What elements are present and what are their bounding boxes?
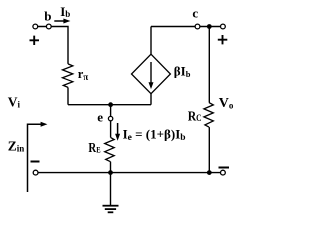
- terminal circle left input top: [33, 24, 38, 29]
- svg-text:rπ: rπ: [78, 67, 89, 82]
- wire: top rail to diamond top: [150, 27, 152, 55]
- svg-text:e: e: [97, 109, 103, 124]
- wire: top-left from terminal b to corner: [35, 27, 68, 64]
- resistor R_C zigzag: [204, 103, 213, 128]
- resistor R_E zigzag: [105, 137, 115, 161]
- wire: middle rail: [68, 104, 151, 106]
- wire: diamond bottom to middle rail: [150, 94, 152, 105]
- plus sign right: [218, 35, 228, 44]
- wire: R_E bottom to ground: [110, 162, 112, 205]
- wire: R_C bottom to bottom rail: [208, 127, 210, 173]
- wire: node e to R_E: [110, 121, 112, 138]
- svg-text:Vi: Vi: [8, 94, 21, 109]
- svg-text:Vo: Vo: [219, 96, 234, 111]
- terminal circle bottom-left: [33, 170, 38, 175]
- svg-text:Ib: Ib: [60, 4, 70, 19]
- terminal circle c: [195, 24, 200, 29]
- minus sign left: [31, 161, 40, 163]
- wire: top-right rail: [151, 26, 223, 28]
- ground symbol: [103, 205, 119, 207]
- current arrow I_b: [54, 20, 65, 22]
- svg-text:c: c: [192, 6, 198, 21]
- wire: bottom rail: [36, 172, 223, 174]
- dependent current source diamond: [132, 54, 171, 93]
- node junction dot at e branch: [108, 102, 113, 107]
- arrow inside diamond (beta Ib direction): [150, 62, 152, 84]
- terminal circle bottom-right output: [221, 170, 226, 175]
- svg-text:βIb: βIb: [174, 64, 191, 79]
- svg-text:Zin: Zin: [8, 138, 25, 153]
- current arrow I_e: [117, 123, 119, 135]
- svg-text:Ie = (1+β)Ib: Ie = (1+β)Ib: [123, 126, 186, 143]
- junction dot bottom rail right: [207, 170, 212, 175]
- junction dot top-right: [207, 24, 212, 29]
- junction dot bottom rail left: [108, 170, 113, 175]
- wire: junction to node e: [110, 105, 112, 117]
- impedance arrow Z_in: [28, 124, 42, 192]
- plus sign left: [30, 36, 40, 45]
- node e terminal circle: [108, 116, 112, 120]
- resistor r_pi zigzag: [63, 64, 73, 88]
- svg-text:RC: RC: [188, 109, 202, 124]
- terminal circle top-right output: [221, 24, 226, 29]
- svg-text:b: b: [44, 8, 51, 23]
- terminal circle b: [46, 24, 51, 29]
- wire: R_C branch top: [208, 27, 210, 103]
- minus sign right: [219, 167, 230, 169]
- svg-text:RE: RE: [88, 141, 100, 156]
- wire: r_pi bottom to middle rail: [67, 87, 69, 104]
